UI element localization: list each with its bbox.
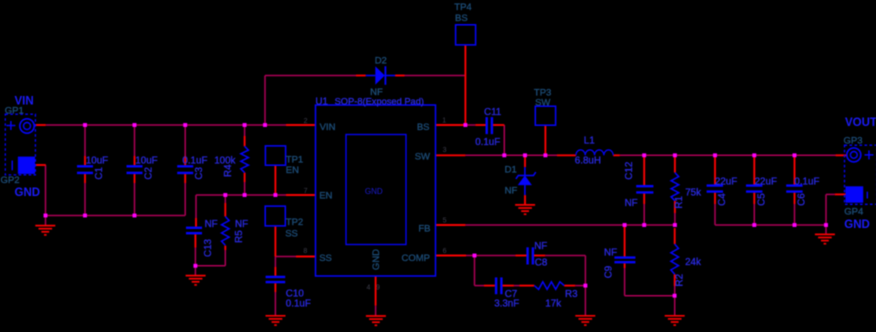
pin C3 bottom [184, 174, 186, 183]
svg-text:BS: BS [455, 13, 468, 24]
junction FB row / C9 [623, 223, 627, 227]
svg-text:3.3nF: 3.3nF [494, 298, 519, 309]
pin C11 right [493, 124, 504, 126]
wire C1 lower [84, 183, 86, 216]
svg-text:TP1: TP1 [286, 154, 303, 165]
wire left GND row [46, 215, 186, 217]
pin R3 left [520, 285, 535, 287]
svg-text:C6: C6 [796, 193, 807, 206]
svg-text:EN: EN [319, 191, 332, 202]
pin D2 anode [356, 75, 366, 77]
pin R1 bottom [674, 201, 676, 213]
wire R2 bottom to junction [674, 286, 676, 296]
junction SW row / TP3 [543, 153, 547, 157]
pin U1 EN [286, 194, 316, 196]
pin C10 bottom [274, 283, 276, 292]
connector GP3 dashed box [845, 145, 876, 204]
connector GP2 pad [18, 157, 35, 174]
svg-text:NF: NF [235, 219, 248, 230]
pin D2 cathode [395, 75, 405, 77]
junction gnd row / C5 [752, 223, 756, 227]
svg-text:24k: 24k [685, 257, 701, 268]
junction output row / C12 [642, 153, 646, 157]
wire R1 bottom [674, 213, 676, 225]
junction FB row / divider [673, 223, 677, 227]
svg-text:C4: C4 [717, 193, 728, 206]
pin R3 right [564, 285, 575, 287]
svg-text:NF: NF [205, 219, 218, 230]
junction VIN rail / D2 branch [263, 123, 267, 127]
pin C7 right [503, 285, 514, 287]
inductor L1 [576, 150, 613, 155]
svg-text:FB: FB [418, 224, 430, 235]
svg-text:EN: EN [286, 165, 299, 176]
wire C11 right to SW row [503, 125, 505, 155]
capacitor C8 [528, 247, 533, 264]
wire EN row [196, 194, 286, 196]
capacitor C2 [127, 166, 143, 173]
resistor R4 [241, 146, 249, 172]
pin C9 bottom [624, 263, 626, 268]
pin C6 top [794, 155, 796, 184]
svg-text:C5: C5 [756, 193, 767, 206]
capacitor C9 [614, 258, 635, 263]
svg-text:NF: NF [534, 241, 547, 252]
svg-text:BS: BS [417, 122, 430, 133]
pin C10 top [274, 267, 276, 276]
wire C10 ground lead [274, 292, 276, 316]
wire C2 lower [134, 183, 136, 216]
ground (output) [815, 234, 835, 243]
pin C4 top [714, 155, 716, 184]
pin D1 bottom [524, 195, 526, 205]
pin C2 top [134, 156, 136, 165]
wire COMP row [466, 255, 515, 257]
junction VIN rail / C1 [83, 123, 87, 127]
svg-text:C3: C3 [194, 166, 205, 179]
resistor R3 [534, 282, 564, 290]
svg-text:75k: 75k [685, 187, 701, 198]
junction SW row / C11 [502, 153, 506, 157]
pin C12 top [643, 155, 645, 185]
svg-text:R3: R3 [565, 289, 578, 300]
wire IC GND stem [375, 306, 377, 316]
pin TP2 [274, 226, 276, 257]
svg-text:NF: NF [505, 186, 518, 197]
pin TP3 [544, 125, 546, 155]
wire R5 bottom [224, 250, 226, 266]
svg-text:GND: GND [365, 187, 383, 196]
svg-text:U1: U1 [315, 96, 328, 107]
wire L1 to output row [620, 154, 836, 156]
junction output row / C4 [713, 153, 717, 157]
svg-text:0.1uF: 0.1uF [794, 176, 819, 187]
wire C13 riser [195, 195, 197, 218]
wire R2 ground stem [674, 296, 676, 316]
svg-text:C2: C2 [144, 167, 155, 180]
svg-text:R4: R4 [223, 164, 234, 177]
wire VIN rail riser to D2 branch [264, 76, 266, 126]
connector GP3 jack [847, 148, 861, 162]
junction COMP row [473, 254, 477, 258]
junction R3/C8 gnd [583, 284, 587, 288]
wire SW row [465, 154, 557, 156]
svg-text:GND: GND [15, 187, 41, 199]
wire R3 right to junction [575, 285, 585, 287]
ground (C13/R5) [186, 276, 206, 285]
junction VIN rail / R4 [243, 123, 247, 127]
svg-text:6: 6 [443, 248, 447, 255]
pin GP1 [35, 124, 46, 126]
pin U1 SS [296, 256, 316, 258]
svg-text:TP4: TP4 [454, 2, 471, 13]
capacitor C5 [746, 186, 762, 192]
pin R2 top [674, 228, 676, 244]
connector GP4 pad [846, 186, 864, 202]
ic U1 outline [316, 105, 436, 276]
wire R4 top [244, 125, 246, 136]
svg-text:SW: SW [535, 98, 550, 109]
wire C6 bottom [794, 204, 796, 225]
ground (U1 GND) [366, 316, 386, 325]
pin C9 top [624, 225, 626, 257]
diode D1 (zener) [516, 167, 536, 195]
pin C13 bottom [194, 234, 196, 247]
wire C3 lower [184, 183, 186, 216]
svg-text:C8: C8 [535, 258, 548, 269]
wire BS node vertical (TP4 pin) [464, 45, 466, 125]
svg-text:TP2: TP2 [286, 217, 303, 228]
wire GP2 ground stem [45, 216, 47, 226]
pin L1 right [613, 154, 620, 156]
wire GP4 branch [826, 193, 835, 195]
pin GP4 [835, 193, 846, 195]
svg-text:L1: L1 [584, 135, 595, 146]
wire C9 branch upper [624, 225, 626, 232]
svg-text:R5: R5 [234, 230, 245, 243]
capacitor C10 [266, 277, 286, 282]
wire C8 right elbow [545, 255, 585, 257]
pin C13 top [195, 218, 197, 227]
pin C1 top [84, 156, 86, 165]
wire C13 lower [194, 238, 196, 266]
wire D2 anode net [265, 75, 356, 77]
junction EN row / TP1 [273, 193, 277, 197]
svg-text:8: 8 [303, 248, 307, 255]
capacitor C13 [186, 228, 202, 233]
wire C1 upper [84, 125, 86, 156]
pin R5 bottom [224, 246, 226, 250]
pin C6 bottom [794, 193, 796, 204]
wire C13 ground stem [194, 266, 196, 276]
svg-text:0.1uF: 0.1uF [475, 137, 500, 148]
pin U1 SW [436, 154, 466, 156]
svg-text:D2: D2 [375, 56, 387, 67]
svg-text:4: 4 [367, 284, 371, 291]
wire VIN rail [46, 124, 286, 126]
pin GP2 [33, 164, 45, 166]
resistor R5 [222, 217, 230, 246]
wire R5 top stub [224, 195, 226, 203]
diode D2 [366, 66, 395, 85]
pin D1 top [524, 155, 526, 167]
svg-text:5: 5 [443, 218, 447, 225]
svg-text:GP1: GP1 [5, 105, 24, 116]
pin TP1 [274, 165, 276, 195]
junction output row / C5 [752, 153, 756, 157]
wire TP2 to C10 [274, 257, 276, 268]
junction C13/R5 bottom [193, 264, 197, 268]
capacitor C12 [636, 186, 653, 192]
svg-text:COMP: COMP [402, 253, 431, 264]
capacitor C6 [786, 186, 802, 192]
pin C12 bottom [643, 193, 645, 204]
pin C5 bottom [753, 193, 755, 204]
pin C1 bottom [84, 174, 86, 183]
pin R2 bottom [674, 274, 676, 286]
wire C3 upper [184, 125, 186, 156]
wire C4 bottom to GND row [714, 204, 716, 225]
testpoint TP2 [265, 206, 285, 226]
wire C9 branch lower to bottom row [624, 268, 626, 296]
svg-text:10uF: 10uF [86, 156, 108, 167]
capacitor C4 [707, 186, 723, 192]
pin C3 top [184, 156, 186, 165]
ground (input) [35, 226, 55, 235]
pin C11 left [475, 124, 485, 126]
junction gnd row / C6 [793, 223, 797, 227]
wire C7-R3 mid [514, 285, 520, 287]
svg-text:1: 1 [442, 118, 446, 125]
ground (R2) [665, 316, 685, 325]
wire D2 cathode to BS node [395, 75, 465, 77]
junction gnd row / output gnd [824, 223, 828, 227]
svg-text:GP4: GP4 [844, 206, 863, 217]
pin U1 FB [436, 224, 466, 226]
svg-text:GP2: GP2 [1, 175, 20, 186]
svg-text:3: 3 [443, 147, 447, 154]
wire SS row [275, 256, 296, 258]
wire C9 bottom row [625, 295, 675, 297]
capacitor C3 [177, 166, 193, 173]
junction FB row / C12 [642, 223, 646, 227]
junction output row / C6 [793, 153, 797, 157]
pin C8 right [534, 255, 545, 257]
capacitor C1 [77, 166, 93, 173]
wire C2 upper [134, 125, 136, 156]
svg-text:VIN: VIN [320, 122, 336, 133]
junction VIN rail / C3 [183, 123, 187, 127]
svg-text:SS: SS [319, 253, 332, 264]
pin C8 left [515, 255, 526, 257]
wire BS row C11 gap [465, 124, 475, 126]
svg-text:R1: R1 [674, 196, 685, 209]
wire C8/R3 ground stem [584, 286, 586, 316]
wire COMP junction riser to C7 row [474, 256, 476, 286]
junction R2 bottom / C9 [673, 294, 677, 298]
svg-text:NF: NF [604, 247, 617, 258]
capacitor C7 [496, 277, 501, 294]
svg-text:NF: NF [370, 87, 383, 98]
pin R4 top [244, 136, 246, 146]
junction BS node [463, 123, 467, 127]
svg-text:SW: SW [415, 151, 430, 162]
pin C2 bottom [134, 174, 136, 183]
wire output gnd stem [825, 225, 827, 234]
svg-text:C13: C13 [203, 238, 214, 257]
resistor R2 [671, 244, 679, 274]
svg-text:C11: C11 [484, 107, 501, 118]
junction left gnd row / C2 [133, 214, 137, 218]
pin U1 VIN [286, 124, 316, 126]
svg-text:VOUT: VOUT [845, 117, 876, 129]
svg-text:22uF: 22uF [715, 176, 737, 187]
connector GP3 plus sign [865, 150, 874, 159]
pin U1 GND [375, 276, 377, 306]
svg-text:GND: GND [844, 219, 870, 231]
svg-text:GND: GND [371, 249, 382, 270]
pin GP3 [836, 154, 847, 156]
connector GP1 dashed box [5, 114, 35, 175]
testpoint TP4 [456, 25, 476, 45]
svg-text:C12: C12 [624, 162, 635, 180]
junction EN row / R5 [223, 193, 227, 197]
capacitor C11 [487, 117, 492, 134]
svg-text:SS: SS [285, 229, 298, 240]
svg-text:7: 7 [304, 188, 308, 195]
junction left gnd row / C1 [83, 214, 87, 218]
pin R1 top [674, 155, 676, 172]
ground (C10) [266, 316, 286, 325]
junction output row / R1 [673, 153, 677, 157]
svg-text:22uF: 22uF [755, 176, 777, 187]
svg-text:9: 9 [376, 284, 380, 291]
svg-text:2: 2 [304, 118, 308, 125]
pin U1 COMP [436, 255, 467, 257]
svg-text:6.8uH: 6.8uH [575, 155, 601, 166]
wire C5 bottom [753, 204, 755, 225]
junction left gnd row / GP2 [44, 214, 48, 218]
connector GP1 jack [20, 119, 34, 133]
pin L1 left [557, 154, 576, 156]
wire GP2 down [45, 165, 47, 216]
svg-text:C1: C1 [94, 167, 105, 180]
testpoint TP3 [535, 106, 555, 125]
pin R4 bottom [244, 173, 246, 182]
pin U1 BS [436, 124, 466, 126]
testpoint TP1 [265, 146, 285, 165]
connector GP1 plus sign [6, 121, 15, 130]
svg-text:17k: 17k [545, 298, 561, 309]
pin C4 bottom [714, 193, 716, 204]
pin R5 top [224, 203, 226, 217]
wire R4 bottom [244, 182, 246, 195]
pin C5 top [753, 155, 755, 184]
svg-text:0.1uF: 0.1uF [286, 298, 311, 309]
junction SW row / D1 [523, 153, 527, 157]
resistor R1 [671, 173, 679, 201]
svg-text:R2: R2 [674, 274, 685, 287]
svg-text:D1: D1 [505, 165, 517, 176]
wire GND row right [715, 224, 826, 226]
svg-text:10uF: 10uF [135, 156, 157, 167]
svg-text:GP3: GP3 [844, 136, 863, 147]
ground (D1) [515, 205, 535, 214]
svg-text:NF: NF [625, 198, 638, 209]
pin C7 left [484, 285, 495, 287]
wire C12 bottom [643, 204, 645, 225]
connector GP2 tick [11, 161, 13, 171]
connector GP4 tick [866, 192, 868, 199]
svg-text:0.1uF: 0.1uF [182, 156, 207, 167]
junction EN row / R4 [243, 193, 247, 197]
svg-text:C9: C9 [603, 266, 614, 279]
ground (C8/R3) [575, 316, 595, 325]
wire FB row [465, 224, 675, 226]
junction VIN rail / C2 [133, 123, 137, 127]
